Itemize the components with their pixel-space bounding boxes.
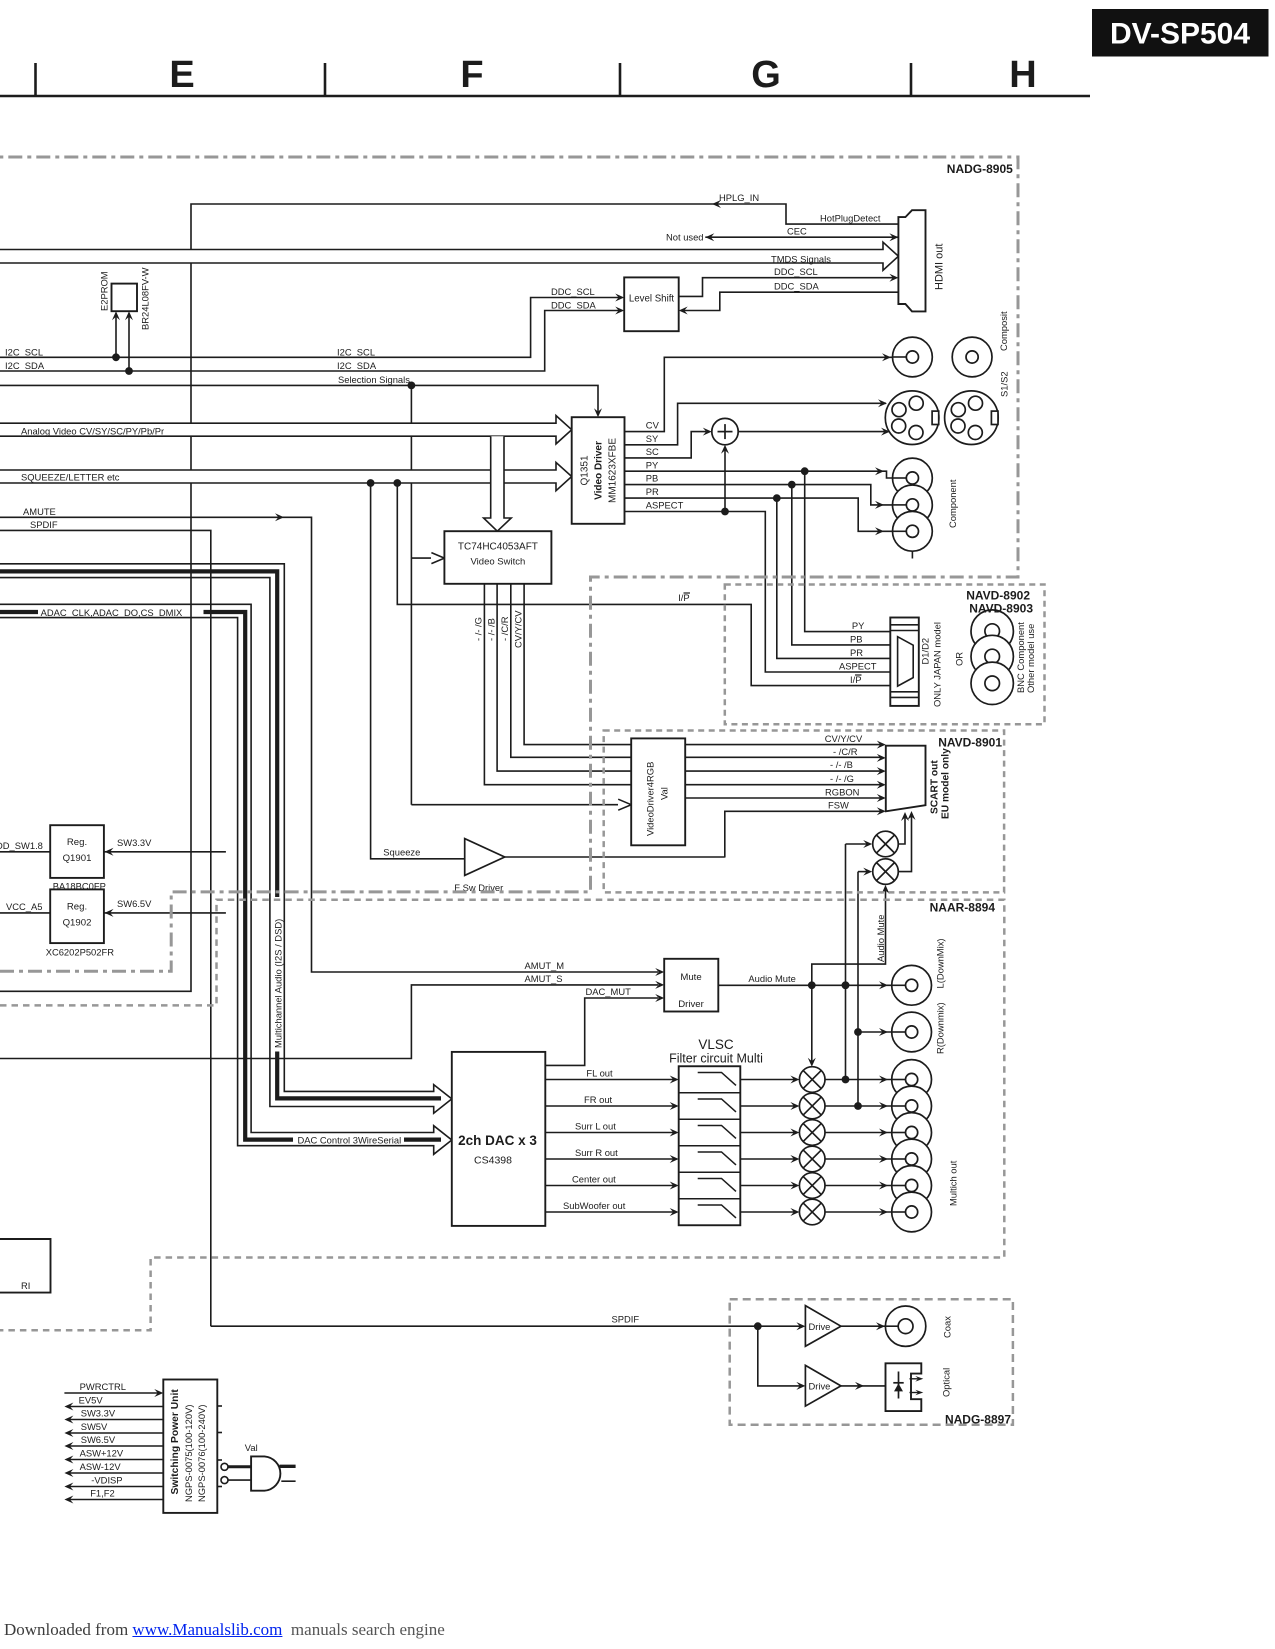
svg-text:ASW+12V: ASW+12V [80, 1448, 124, 1459]
wire AMUT_S [0, 973, 664, 1059]
wire Center out [545, 1174, 678, 1190]
svg-text:- /- /G: - /- /G [473, 617, 484, 641]
svg-text:Reg.: Reg. [67, 902, 87, 913]
wire PB [625, 473, 907, 509]
svg-text:NAAR-8894: NAAR-8894 [930, 901, 996, 915]
wire stubs inside component jacks [892, 478, 906, 531]
wire Surr L out to jack [825, 1129, 906, 1137]
wire I2C_SCL [0, 294, 624, 362]
footer manualslib [4, 1620, 445, 1640]
svg-text:Q1902: Q1902 [63, 918, 92, 929]
VLSC filter bank [679, 1066, 741, 1225]
svg-text:Mute: Mute [680, 972, 701, 983]
wire audio mute down to multipliers [808, 985, 816, 1066]
wire EV5V [64, 1395, 163, 1411]
svg-text:SQUEEZE/LETTER etc: SQUEEZE/LETTER etc [21, 471, 120, 482]
jack R(Downmix) [892, 1002, 946, 1054]
wire stub inside L(DownMix) jack [891, 984, 905, 986]
svg-text:I/P: I/P [850, 674, 861, 685]
svg-text:Driver: Driver [678, 999, 704, 1010]
svg-text:PB: PB [646, 473, 659, 484]
wire FR out to jack [825, 1102, 906, 1110]
svg-text:AMUT_M: AMUT_M [525, 960, 565, 971]
wire PR [625, 486, 907, 535]
svg-text:- /C/R: - /C/R [499, 616, 510, 641]
wire FSW to SCART [725, 799, 886, 857]
svg-text:VCC_A5: VCC_A5 [6, 901, 42, 912]
wire I2C_SDA [0, 307, 624, 375]
svg-text:Filter circuit Multi: Filter circuit Multi [669, 1052, 763, 1066]
AC inlet Val plug [221, 1442, 296, 1491]
svg-text:NGPS-0075(100-120V): NGPS-0075(100-120V) [183, 1405, 194, 1502]
label VLSC Filter circuit Multi [669, 1037, 763, 1066]
wire Surr R out [545, 1147, 678, 1163]
svg-text:I2C_SCL: I2C_SCL [337, 347, 375, 358]
bus ADAC_CLK,ADAC_DO,CS_DMIX thick line [0, 607, 441, 1146]
bus TMDS Signals (hollow arrow to HDMI) [0, 242, 898, 270]
svg-text:FSW: FSW [828, 799, 849, 810]
wire SC into adder [625, 428, 712, 458]
wire Surr R out to jack [825, 1155, 906, 1163]
wire stub inside coax jack [885, 1325, 898, 1327]
level shift IC [624, 277, 679, 331]
svg-text:Analog Video CV/SY/SC/PY/Pb/Pr: Analog Video CV/SY/SC/PY/Pb/Pr [21, 426, 164, 437]
connector S1/S2 DIN (other model) [945, 371, 1010, 444]
svg-text:Surr R out: Surr R out [575, 1147, 618, 1158]
svg-text:L(DownMix): L(DownMix) [935, 938, 946, 988]
wire - /- /G to SCART [685, 773, 886, 789]
wire Selection Signals [0, 374, 602, 417]
svg-text:- /- /B: - /- /B [830, 759, 853, 770]
svg-text:-VDISP: -VDISP [91, 1475, 122, 1486]
wire audio mute riser to X2 [812, 885, 890, 985]
buffer Drive (coax) [805, 1306, 897, 1347]
wire SPDIF (left edge down to digital out) [0, 519, 211, 1326]
svg-text:SW3.3V: SW3.3V [117, 837, 152, 848]
wire SubWoofer out to jack [825, 1208, 906, 1216]
svg-text:SPDIF: SPDIF [612, 1314, 640, 1325]
board NAVD-8902/8903 dotted border [725, 585, 1045, 725]
svg-text:E: E [169, 54, 194, 96]
svg-text:TC74HC4053AFT: TC74HC4053AFT [458, 542, 538, 553]
wire - /C/R to SCART [685, 746, 886, 762]
svg-text:DAC_MUT: DAC_MUT [586, 986, 632, 997]
wire CV/Y/CV to SCART [685, 733, 886, 749]
svg-text:S1/S2: S1/S2 [999, 371, 1010, 397]
svg-text:- /- /G: - /- /G [830, 773, 854, 784]
svg-text:HPLG_IN: HPLG_IN [719, 192, 759, 203]
jack Coax [885, 1306, 952, 1346]
svg-text:SW5V: SW5V [81, 1421, 108, 1432]
connector SCART out EU model only [886, 746, 952, 819]
svg-text:Center out: Center out [572, 1174, 616, 1185]
wire stub inside composite jack [892, 356, 906, 358]
wire FL out [545, 1068, 678, 1084]
wire video switch output - /- /G [473, 584, 632, 785]
wire DDC_SDA HDMI to level shift [551, 281, 898, 315]
wire SY to S1/S2 jack [625, 399, 888, 445]
svg-text:Level Shift: Level Shift [629, 294, 675, 305]
svg-text:Val: Val [659, 787, 670, 800]
wire SW5V [64, 1421, 163, 1437]
mute driver [664, 959, 718, 1012]
wire ASW+12V [64, 1448, 163, 1464]
wire video switch output CV/Y/CV [513, 584, 632, 745]
wire PWRCTRL [64, 1381, 163, 1397]
svg-text:Other model use: Other model use [1025, 624, 1036, 693]
wire stub inside R(Downmix) jack [891, 1031, 905, 1033]
svg-text:Multichannel Audio (I2S / DSD): Multichannel Audio (I2S / DSD) [273, 919, 284, 1048]
multiplier X2 (SCART audio R) [858, 811, 916, 884]
svg-text:ASPECT: ASPECT [646, 500, 684, 511]
svg-text:Component: Component [947, 479, 958, 528]
title block DV-SP504 [1092, 9, 1269, 57]
wire SW3.3V [64, 1408, 163, 1424]
wire FR to X2 / R(Downmix) riser [854, 872, 862, 1110]
svg-text:DV-SP504: DV-SP504 [1110, 18, 1250, 51]
svg-text:EU model only: EU model only [941, 748, 952, 819]
bus multichannel audio wrapper (hollow arrow into DAC) [0, 564, 452, 1113]
connector Optical (Toslink with LED) [886, 1363, 952, 1411]
wire VCC_A5 [0, 901, 50, 913]
wire FR out [545, 1094, 678, 1110]
svg-text:BR24L08FV-W: BR24L08FV-W [140, 267, 151, 330]
svg-text:DDC_SDA: DDC_SDA [551, 300, 597, 311]
svg-text:PY: PY [646, 459, 659, 470]
svg-text:DDC_SCL: DDC_SCL [551, 286, 595, 297]
board NAVD-8901 dotted border [604, 731, 1004, 893]
svg-text:G: G [751, 54, 781, 96]
svg-text:CV/Y/CV: CV/Y/CV [825, 733, 863, 744]
buffer Drive (optical) [805, 1365, 885, 1406]
svg-text:SCART out: SCART out [930, 760, 941, 814]
multiplier mute SubWoofer out [740, 1199, 825, 1225]
wire RGBON to SCART [685, 786, 886, 802]
svg-text:F1,F2: F1,F2 [90, 1488, 115, 1499]
wire HotPlugDetect [820, 213, 881, 224]
svg-text:ADAC_CLK,ADAC_DO,CS_DMIX: ADAC_CLK,ADAC_DO,CS_DMIX [41, 607, 183, 618]
connector composite RCA (other model) [952, 311, 1009, 377]
wire video switch output - /- /B [486, 584, 632, 771]
video driver 4RGB IC [631, 738, 685, 845]
wire DAC_MUT [545, 986, 664, 1065]
svg-text:XC6202P502FR: XC6202P502FR [46, 947, 115, 958]
wire E2PROM SDA pin [125, 311, 133, 371]
wire ASPECT [625, 500, 891, 673]
node selection to video switch (open arrow) [411, 553, 444, 564]
svg-text:PWRCTRL: PWRCTRL [80, 1381, 126, 1392]
multiplier X1 (SCART audio L) [846, 812, 910, 857]
svg-text:E2PROM: E2PROM [99, 271, 110, 311]
switching power unit NGPS-0075/0076 [163, 1380, 222, 1513]
svg-text:AMUTE: AMUTE [23, 506, 56, 517]
svg-text:SW3.3V: SW3.3V [81, 1408, 116, 1419]
svg-text:AMUT_S: AMUT_S [525, 973, 563, 984]
svg-text:2ch DAC x 3: 2ch DAC x 3 [458, 1133, 537, 1148]
bus multichannel audio thick line with label Multichannel Audio (I2S / DSD) [0, 571, 441, 1098]
wire SW3.3V [104, 837, 226, 856]
wire SPDIF to drives [211, 1314, 806, 1390]
svg-text:Video Switch: Video Switch [471, 557, 526, 568]
svg-text:VLSC: VLSC [698, 1037, 734, 1052]
bus DAC control wrapper (hollow arrow into DAC) [0, 604, 452, 1154]
DAC 2ch DAC x 3 CS4398 [452, 1052, 546, 1226]
svg-text:NAVD-8902: NAVD-8902 [966, 589, 1030, 603]
svg-text:Q1901: Q1901 [63, 853, 92, 864]
svg-text:I/P: I/P [678, 592, 689, 603]
svg-text:NADG-8905: NADG-8905 [947, 162, 1013, 176]
svg-text:PR: PR [850, 647, 863, 658]
wire stubs inside multich jacks [891, 1080, 905, 1213]
wire SW6.5V [104, 898, 226, 917]
svg-text:Audio Mute: Audio Mute [875, 915, 886, 962]
wire Surr L out [545, 1121, 678, 1137]
svg-text:SPDIF: SPDIF [30, 519, 58, 530]
wire FL out to jack [825, 1076, 906, 1084]
wire - /- /B to SCART [685, 759, 886, 775]
multiplier mute Surr R out [740, 1146, 825, 1172]
connector HDMI out [898, 210, 945, 311]
svg-text:Multich out: Multich out [948, 1160, 959, 1206]
bus arrow down into video switch [484, 436, 512, 531]
svg-text:RGBON: RGBON [825, 786, 859, 797]
wire ASPECT junction up into adder [721, 445, 729, 516]
svg-text:I2C_SCL: I2C_SCL [5, 347, 43, 358]
svg-text:PY: PY [852, 620, 865, 631]
wire video switch output - /C/R [499, 584, 631, 758]
buffer F Sw Driver [454, 839, 725, 893]
wire Center out to jack [825, 1182, 906, 1190]
svg-text:F: F [460, 54, 483, 96]
svg-text:FL out: FL out [586, 1068, 613, 1079]
wire ASW-12V [64, 1461, 163, 1477]
connector BNC component x3 (other model use) [971, 610, 1036, 705]
label ASPECT at D1/D2 [839, 660, 877, 671]
svg-text:NGPS-0076(100-240V): NGPS-0076(100-240V) [196, 1405, 207, 1502]
wire AMUTE / AMUT_M [0, 506, 664, 976]
regulator Q1901 BA18BC0FP [50, 825, 106, 892]
svg-text:DDC_SDA: DDC_SDA [774, 281, 820, 292]
wire adder output to S1/S2 jack [738, 428, 890, 436]
wire -VDISP [64, 1475, 163, 1491]
svg-text:Audio Mute: Audio Mute [748, 973, 795, 984]
svg-text:Video Driver: Video Driver [594, 441, 605, 500]
wire Squeeze to F Sw Driver [371, 483, 465, 859]
regulator Q1902 XC6202P502FR [46, 889, 115, 957]
svg-text:Drive: Drive [809, 1381, 831, 1392]
wire HPLG_IN (HDMI HotPlugDetect to left edge) [0, 192, 898, 991]
wire SubWoofer out [545, 1200, 678, 1216]
svg-text:MM1623XFBE: MM1623XFBE [608, 438, 619, 503]
wire PY [625, 459, 907, 478]
svg-text:ONLY JAPAN model: ONLY JAPAN model [932, 622, 943, 707]
video switch IC TC74HC4053AFT [444, 531, 551, 584]
svg-text:PR: PR [646, 486, 659, 497]
svg-text:HotPlugDetect: HotPlugDetect [820, 213, 881, 224]
wire SW6.5V [64, 1434, 163, 1450]
wire R(Downmix) [858, 1028, 906, 1036]
svg-text:CV: CV [646, 420, 660, 431]
svg-text:Switching Power Unit: Switching Power Unit [170, 1389, 181, 1495]
multiplier mute FR out [740, 1093, 825, 1119]
svg-text:Squeeze: Squeeze [383, 847, 420, 858]
svg-text:NAVD-8903: NAVD-8903 [969, 602, 1033, 616]
svg-text:VideoDriver4RGB: VideoDriver4RGB [645, 762, 656, 836]
wire PY to D1/D2 [805, 471, 891, 631]
svg-text:RI: RI [21, 1280, 30, 1291]
svg-text:CEC: CEC [787, 226, 807, 237]
svg-text:CV/Y/CV: CV/Y/CV [513, 610, 524, 648]
connector S1/S2 DIN (wired) [885, 391, 939, 445]
svg-text:- /- /B: - /- /B [486, 618, 497, 641]
jacks Multich out x6 [892, 1060, 959, 1232]
wire Selection Signals vertical branch [410, 385, 412, 804]
svg-text:Coax: Coax [942, 1316, 953, 1338]
svg-text:OR: OR [954, 652, 965, 666]
svg-text:SC: SC [646, 446, 659, 457]
board NAAR-8894 dotted border [0, 900, 1004, 1331]
svg-text:EV5V: EV5V [79, 1395, 104, 1406]
svg-text:DD_SW1.8: DD_SW1.8 [0, 840, 43, 851]
wire F1,F2 [64, 1488, 163, 1504]
wire FL to X1 riser [842, 844, 850, 1083]
wire CEC (not used) [666, 226, 898, 243]
svg-text:Optical: Optical [941, 1368, 952, 1397]
svg-text:SubWoofer out: SubWoofer out [563, 1200, 626, 1211]
svg-text:Reg.: Reg. [67, 837, 87, 848]
svg-text:DAC Control 3WireSerial: DAC Control 3WireSerial [298, 1134, 402, 1145]
sheet column ruler E F G H [0, 54, 1090, 96]
svg-text:Selection Signals: Selection Signals [338, 374, 410, 385]
svg-text:D1/D2: D1/D2 [920, 638, 931, 665]
board NADG-8897 dashed border [730, 1299, 1013, 1426]
connector component RCA x3 [893, 458, 959, 558]
wire PR to D1/D2 [777, 498, 891, 658]
svg-text:ASW-12V: ASW-12V [80, 1461, 122, 1472]
svg-text:SW6.5V: SW6.5V [81, 1434, 116, 1445]
svg-text:Drive: Drive [809, 1321, 831, 1332]
svg-text:TMDS Signals: TMDS Signals [771, 253, 831, 264]
node selection to VideoDriver4RGB (open arrow) [411, 799, 631, 810]
svg-text:PB: PB [850, 633, 863, 644]
wire PB to D1/D2 [792, 485, 891, 645]
video driver IC Q1351 MM1623XFBE [572, 417, 625, 524]
svg-text:Surr L out: Surr L out [575, 1121, 616, 1132]
multiplier mute Surr L out [740, 1120, 825, 1146]
board NADG-8905 dash-dot border [0, 157, 1018, 971]
wire I/P (interlace/progressive) [397, 483, 890, 686]
svg-text:I2C_SDA: I2C_SDA [5, 360, 45, 371]
svg-text:NADG-8897: NADG-8897 [945, 1413, 1011, 1427]
IC RI (cut at page edge) [0, 1239, 51, 1293]
svg-text:Not used: Not used [666, 232, 704, 243]
connector D1/D2 (ONLY JAPAN model) [890, 618, 964, 708]
svg-text:SW6.5V: SW6.5V [117, 898, 152, 909]
svg-text:I2C_SDA: I2C_SDA [337, 360, 377, 371]
svg-text:H: H [1009, 54, 1036, 96]
svg-text:CS4398: CS4398 [474, 1155, 512, 1167]
bus SQUEEZE/LETTER etc (hollow arrow into video driver) [0, 462, 572, 490]
svg-text:HDMI out: HDMI out [934, 244, 946, 290]
wire DD_SW1.8 [0, 840, 50, 852]
svg-text:Composit: Composit [998, 311, 1009, 351]
svg-text:ASPECT: ASPECT [839, 660, 877, 671]
wire DDC_SCL level shift to HDMI [551, 266, 898, 297]
jack L(DownMix) [892, 938, 946, 1005]
svg-text:- /C/R: - /C/R [833, 746, 858, 757]
svg-text:FR out: FR out [584, 1094, 613, 1105]
svg-text:DDC_SCL: DDC_SCL [774, 266, 818, 277]
adder (sum node) for S video [712, 418, 738, 444]
svg-text:R(Downmix): R(Downmix) [935, 1002, 946, 1054]
svg-text:SY: SY [646, 433, 659, 444]
connector composite RCA (wired) [893, 337, 933, 377]
bus Analog Video CV/SY/SC/PY/Pb/Pr (hollow arrow into video driver) [0, 416, 572, 444]
wire CV to composite jack [625, 353, 907, 431]
E2PROM BR24L08FV-W [99, 267, 151, 330]
svg-text:Val: Val [245, 1442, 258, 1453]
svg-text:Q1351: Q1351 [580, 455, 591, 485]
wire Audio Mute to L(DownMix) [718, 973, 905, 990]
wire E2PROM SCL pin [112, 311, 120, 357]
multiplier mute Center out [740, 1173, 825, 1199]
svg-text:NAVD-8901: NAVD-8901 [938, 736, 1002, 750]
multiplier mute FL out [740, 1067, 825, 1093]
